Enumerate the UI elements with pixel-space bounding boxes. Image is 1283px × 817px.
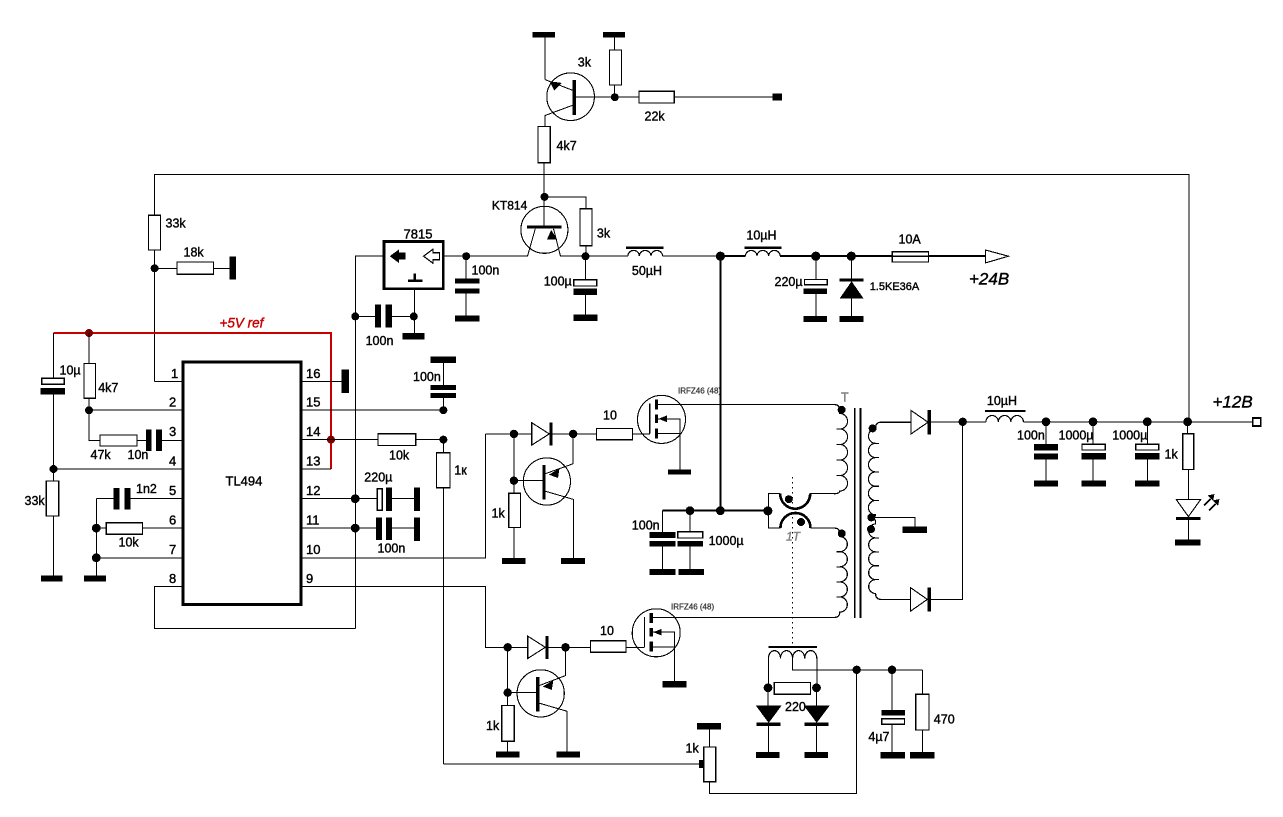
svg-text:+12B: +12B [1213, 393, 1253, 412]
wire: coupling dotted line [792, 477, 794, 644]
wire: pin 4 [54, 468, 184, 470]
node: junction diode A (lower driver) [504, 643, 512, 651]
capacitor 100n (7815 input bypass) [355, 315, 414, 317]
wire: top feedback line [155, 174, 1189, 421]
resistor 3k (top) [609, 50, 621, 85]
resistor 1k (LED) [1187, 422, 1189, 434]
node: junction rail/3k/100u [582, 252, 590, 260]
svg-text:10µH: 10µH [746, 229, 776, 243]
wire: Q3 base lead [576, 96, 615, 98]
svg-text:KT814: KT814 [492, 199, 528, 213]
node: junction 10k/pin6 branch [92, 524, 101, 533]
node: junction 220 left [764, 683, 773, 692]
trimmer 1k [709, 729, 711, 747]
ground (timing) [84, 576, 106, 582]
svg-text:4k7: 4k7 [557, 139, 577, 153]
terminal arrow +24V [986, 250, 1009, 263]
node: phase dot primary upper [838, 406, 846, 414]
node: junction 1000u a [1089, 417, 1098, 426]
svg-text:TL494: TL494 [226, 474, 263, 489]
svg-text:470: 470 [934, 713, 955, 727]
svg-text:10: 10 [600, 624, 614, 638]
node: phase dot 1T upper [785, 495, 793, 503]
wire: to 22k [615, 96, 773, 98]
svg-text:1n2: 1n2 [136, 482, 157, 496]
svg-text:T: T [841, 391, 849, 405]
wire: 1T secondary left terminal [767, 658, 769, 687]
ground (lower 1k) [496, 751, 520, 757]
capacitor 10u (ref) [42, 378, 65, 384]
svg-text:10k: 10k [389, 449, 410, 463]
power bar (soft start top) [430, 357, 456, 363]
power bar V+ (3k top) [603, 32, 625, 37]
wire: 1T secondary center tap [793, 658, 923, 669]
svg-text:33k: 33k [25, 494, 46, 508]
ground (1000u a) [1082, 481, 1106, 487]
svg-text:10: 10 [306, 542, 320, 557]
svg-text:1: 1 [171, 366, 178, 381]
wire: sense loop down [710, 670, 857, 794]
node: junction 4u7 [888, 666, 896, 674]
fuse 10A [892, 252, 928, 262]
resistor 1k (lower base) [502, 705, 515, 741]
svg-text:6: 6 [169, 513, 176, 528]
svg-text:14: 14 [306, 424, 320, 439]
node: junction feed [716, 506, 725, 515]
svg-text:1k: 1k [486, 719, 500, 733]
transformer 1T secondary winding [768, 651, 816, 659]
node: phase dot primary lower [838, 530, 846, 538]
node: junction output/100n [462, 252, 470, 260]
terminal bar (18k end) [229, 257, 236, 280]
wire: node to diode [486, 433, 532, 435]
node: junction led/feedback [1183, 417, 1192, 426]
capacitor 100u (rail filter) [585, 256, 587, 314]
transformer 1T primary arc upper [780, 494, 810, 509]
ground (M1 source) [668, 469, 691, 474]
wire: M1 drain to transformer [658, 404, 834, 406]
wire: diode to gate resistor [553, 433, 597, 435]
wire: red node to 4k7 [88, 333, 90, 363]
node: junction pin4 node [50, 465, 58, 473]
node: junction 10k/1k [439, 436, 447, 444]
node: junction 33k/18k [151, 264, 159, 272]
svg-text:100n: 100n [366, 334, 394, 348]
wire: bar to Q3 emitter [544, 38, 546, 80]
ground (33k) [41, 576, 63, 582]
resistor 18k [177, 262, 214, 274]
wire: to 3k of KT814 [545, 197, 586, 256]
diode (clamp right) [816, 688, 818, 706]
ground (clamp left) [756, 752, 780, 758]
capacitor 100n (vcc) [376, 517, 382, 540]
resistor 33k (DTC divider) [46, 481, 59, 516]
node: junction pin2/47k [85, 406, 93, 414]
ground (100u) [574, 315, 598, 322]
diode (lower speedup) [528, 636, 546, 658]
svg-text:5: 5 [169, 483, 176, 498]
svg-text:1T: 1T [786, 530, 802, 544]
node: junction pin11/vcc [351, 524, 360, 533]
node: red junction pin14 [327, 436, 335, 444]
capacitor 100n (12V) [1045, 422, 1047, 481]
svg-text:100n: 100n [1017, 429, 1045, 443]
node: phase dot 1T lower [797, 518, 805, 526]
node: junction 4k7/3k/KT814 base [541, 193, 549, 201]
wire: LED to ground [1187, 520, 1189, 540]
wire: +12V rail [1023, 421, 1252, 423]
ground (upper Q collector) [561, 558, 585, 564]
wire: 4k7 to pin2 [89, 398, 183, 410]
wire: 1k to LED [1187, 470, 1189, 500]
wire: 1T secondary right terminal [816, 658, 818, 687]
transformer 1T primary brackets [768, 494, 780, 528]
svg-text:4k7: 4k7 [98, 381, 118, 395]
svg-text:10µH: 10µH [987, 394, 1017, 408]
terminal bar (pin16) [342, 370, 349, 393]
terminal bar (100n vcc) [414, 517, 420, 541]
node: junction base/3k/22k [611, 93, 619, 101]
capacitor 220u (24V filter) [815, 256, 817, 316]
node: junction pin15/100n/1k [439, 406, 447, 414]
wire: pin 1 [155, 380, 183, 382]
svg-text:7815: 7815 [404, 227, 433, 242]
node: junction diode K/emitter [569, 430, 577, 438]
wire: 220u to bar [392, 498, 414, 500]
ground (100n 12V) [1034, 481, 1058, 487]
inductor 10uH (24V filter) [745, 250, 780, 256]
svg-text:7: 7 [169, 542, 176, 557]
diode (upper speedup) [532, 423, 550, 445]
wire: node to diode (lower) [508, 646, 528, 648]
svg-text:220: 220 [785, 700, 806, 714]
diode rectifier lower [911, 588, 928, 612]
wire: fuse to +24V arrow (thick) [928, 255, 985, 257]
ground (upper 1k) [502, 558, 526, 564]
wire: pin 9 [301, 587, 508, 648]
wire: 1k to ground (lower) [507, 741, 509, 751]
capacitor 100n (soft start) [442, 363, 444, 410]
capacitor 100n (7815 output bypass) [465, 256, 467, 316]
wire: 3k leads [614, 38, 616, 98]
wire: M2 drain to transformer [653, 617, 834, 619]
node: junction diode A (upper driver) [510, 430, 518, 438]
wire: base branch down (lower) [507, 647, 509, 705]
wire: pin7 [96, 557, 183, 559]
wire: 1k to ground [513, 528, 515, 558]
ground (470) [910, 752, 935, 759]
ground (lower Q collector) [556, 751, 580, 757]
inductor 50uH [628, 250, 663, 256]
node: junction common/100n [410, 312, 418, 320]
svg-text:10k: 10k [119, 536, 140, 550]
svg-text:IRFZ46 (48): IRFZ46 (48) [671, 603, 714, 612]
node: junction base/1k (lower) [504, 688, 512, 696]
wire: pin5 branch vertical [95, 499, 97, 576]
ground (7815 common) [403, 333, 425, 339]
svg-text:100n: 100n [413, 370, 441, 384]
wire: primary center node (thick) [662, 510, 768, 512]
svg-text:13: 13 [306, 454, 320, 469]
transistor Q3 (top PNP) [547, 73, 595, 121]
node: junction rail/primary feed [716, 252, 725, 261]
svg-text:50µH: 50µH [632, 264, 662, 278]
wire: 7815 input [355, 256, 384, 628]
wire: pin 11 [301, 527, 376, 529]
transformer T primary upper winding [834, 405, 848, 494]
ground (clamp right) [804, 752, 828, 758]
node: junction input/100n [351, 312, 359, 320]
svg-text:1.5KE36A: 1.5KE36A [870, 281, 920, 293]
node: junction 1000u [686, 506, 695, 515]
resistor 4k7 (Q3 collector) [538, 126, 550, 162]
wire: pin 15 [301, 409, 443, 411]
svg-text:11: 11 [306, 513, 320, 528]
ground (TVS) [840, 316, 864, 322]
resistor 10 (upper gate) [597, 429, 633, 440]
wire: center tap to ground [871, 517, 915, 526]
svg-text:4µ7: 4µ7 [868, 730, 889, 744]
node: junction pin12/vcc [351, 494, 360, 503]
svg-text:10µ: 10µ [60, 364, 81, 378]
wire: lower rectifier riser [931, 422, 963, 600]
svg-text:10A: 10A [899, 233, 922, 247]
transistor Q (lower discharge PNP) [508, 692, 537, 694]
node: junction 220 right [812, 683, 821, 692]
wire: rail 10uH to fuse (thick) [780, 255, 892, 257]
capacitor 220u (vcc) [377, 489, 382, 511]
resistor 3k (KT814 bias) [580, 209, 592, 246]
svg-text:1k: 1k [686, 742, 700, 756]
svg-text:220µ: 220µ [364, 471, 392, 485]
diode TVS 1.5KE36A [850, 256, 852, 316]
ground (output bypass) [455, 316, 479, 322]
svg-text:33k: 33k [166, 217, 187, 231]
ground (100n node) [650, 569, 676, 575]
svg-text:18k: 18k [184, 246, 205, 260]
resistor 1k (upper base) [509, 493, 521, 527]
ground (M2 source) [663, 681, 687, 687]
transistor Q (upper discharge PNP) [514, 480, 543, 482]
resistor 1k (fb divider) [442, 440, 444, 764]
svg-text:2: 2 [169, 395, 176, 410]
node: junction sense loop [853, 666, 861, 674]
wire: 7815 output [443, 255, 527, 257]
svg-text:+5V ref: +5V ref [220, 316, 265, 331]
resistor 10 (lower gate) [590, 641, 626, 653]
svg-text:8: 8 [169, 571, 176, 586]
terminal bar (220u) [414, 487, 420, 511]
wire: pin 16 [301, 380, 342, 382]
node: junction base/1k [510, 477, 518, 485]
node: junction 1T bracket [763, 506, 772, 515]
transformer 1T secondary core bar [768, 646, 817, 648]
terminal square (22k output) [772, 94, 781, 101]
svg-text:1k: 1k [1165, 448, 1179, 462]
wire: pin 12 [301, 498, 377, 500]
svg-text:9: 9 [306, 571, 313, 586]
ground (1000u node) [679, 569, 704, 575]
wire: pin 10 [301, 434, 486, 558]
svg-text:1000µ: 1000µ [1059, 429, 1094, 443]
node: phase dot secondary lower [867, 525, 875, 533]
svg-text:47k: 47k [91, 448, 112, 462]
wire: rail 50uH to junction [663, 255, 721, 257]
ground (1000u b) [1135, 481, 1159, 487]
power bar (trimmer top) [697, 723, 721, 729]
ground (220u) [804, 316, 828, 322]
capacitor 1000u a (12V) [1092, 422, 1094, 481]
ground (4u7) [880, 752, 904, 759]
capacitor 4u7 [891, 670, 893, 752]
power bar V+ (emitter Q3) [533, 32, 555, 37]
diode LED [1176, 499, 1201, 516]
svg-text:3k: 3k [578, 56, 592, 70]
node: junction 100n [1042, 417, 1051, 426]
resistor 220 (burden) [774, 682, 810, 694]
wire: pin 13 [301, 468, 331, 470]
transformer T secondary upper winding [868, 422, 910, 517]
capacitor 1000u (primary node) [689, 511, 691, 570]
resistor 10k (RT) [96, 527, 183, 529]
wire: ref divider left branch [53, 333, 55, 481]
resistor 33k (top divider) [149, 215, 161, 250]
svg-text:100n: 100n [632, 519, 660, 533]
resistor 4k7 (feedback) [84, 363, 96, 398]
wire: 1T arcs to primary [810, 494, 834, 528]
svg-text:3k: 3k [597, 226, 611, 240]
capacitor 1000u b (12V) [1146, 422, 1148, 481]
wire: 10 to gate [633, 433, 650, 435]
svg-text:1к: 1к [454, 464, 467, 478]
wire: to 18k [155, 267, 230, 269]
transformer 1T primary arc lower [780, 513, 810, 528]
diode (clamp left) [767, 688, 769, 706]
node: junction rail/TVS [847, 252, 856, 261]
ground (LED) [1175, 539, 1201, 545]
node: junction rail/220u [811, 252, 820, 261]
svg-text:12: 12 [306, 483, 320, 498]
wire: diode to gate resistor (lower) [549, 646, 591, 648]
svg-text:100n: 100n [378, 542, 406, 556]
svg-text:22k: 22k [645, 110, 666, 124]
wire: pin8 loop [155, 587, 356, 629]
resistor 22k [639, 91, 674, 103]
svg-text:220µ: 220µ [775, 275, 803, 289]
ground (center tap) [903, 527, 927, 533]
svg-text:100µ: 100µ [544, 275, 572, 289]
wire: 10n to pin3 [162, 439, 183, 441]
resistor 10k (fb) [378, 434, 416, 446]
wire: 33k to ground [53, 516, 55, 576]
svg-text:1000µ: 1000µ [709, 534, 744, 548]
wire: pin 14 to 10k [301, 439, 443, 441]
node: junction pin7 branch [92, 553, 101, 562]
capacitor 10n (comp) [146, 429, 152, 451]
node: junction center tap [867, 513, 875, 521]
svg-text:100n: 100n [472, 264, 500, 278]
terminal square +12V [1253, 418, 1261, 426]
resistor 470 [921, 670, 923, 752]
wire: base branch down [513, 434, 515, 493]
wire: 4k7 to KT814 base node (crosses top line) [543, 163, 545, 226]
node: red junction 4k7 [85, 329, 93, 337]
svg-text:10: 10 [603, 409, 617, 423]
wire: trimmer wiper to feedback [443, 763, 700, 765]
wire: 7815 common pin down [413, 289, 415, 333]
wire: rail junction to 10uH (thick) [720, 255, 745, 257]
transformer T core [855, 408, 861, 618]
transformer T secondary lower winding [869, 517, 911, 599]
inductor 10uH (12V filter) [986, 416, 1024, 422]
svg-text:1k: 1k [492, 507, 506, 521]
svg-text:4: 4 [169, 454, 176, 469]
IC U1 TL494 [183, 362, 301, 605]
svg-text:+24B: +24B [969, 270, 1009, 289]
wire: 100n to bar [392, 527, 414, 529]
wire: primary feed vertical (thick) [719, 256, 721, 511]
wire: diode to 10uH [931, 421, 986, 423]
wire: down to 47k [89, 410, 100, 440]
node: junction diode K/emitter (lower) [561, 643, 569, 651]
wire: main rail KT814 to 50uH [561, 255, 628, 257]
wire: 47k to 10n [137, 439, 146, 441]
wire: 10 to gate (lower) [626, 646, 645, 648]
node: junction 1000u b [1143, 417, 1152, 426]
svg-text:15: 15 [306, 395, 320, 410]
node: junction rectifier output [959, 418, 967, 426]
svg-text:10n: 10n [128, 448, 149, 462]
diode rectifier upper [911, 410, 928, 434]
resistor 47k [100, 435, 137, 446]
transformer T primary lower winding [834, 528, 847, 618]
svg-text:IRFZ46 (48): IRFZ46 (48) [678, 387, 721, 396]
svg-text:16: 16 [306, 366, 320, 381]
svg-text:1000µ: 1000µ [1112, 429, 1147, 443]
svg-text:3: 3 [169, 424, 176, 439]
capacitor 1n2 (CT) [96, 498, 183, 500]
capacitor 100n (primary node) [661, 511, 663, 570]
node: phase dot secondary upper [869, 424, 877, 432]
wire: +5V ref net (red) [54, 333, 332, 469]
